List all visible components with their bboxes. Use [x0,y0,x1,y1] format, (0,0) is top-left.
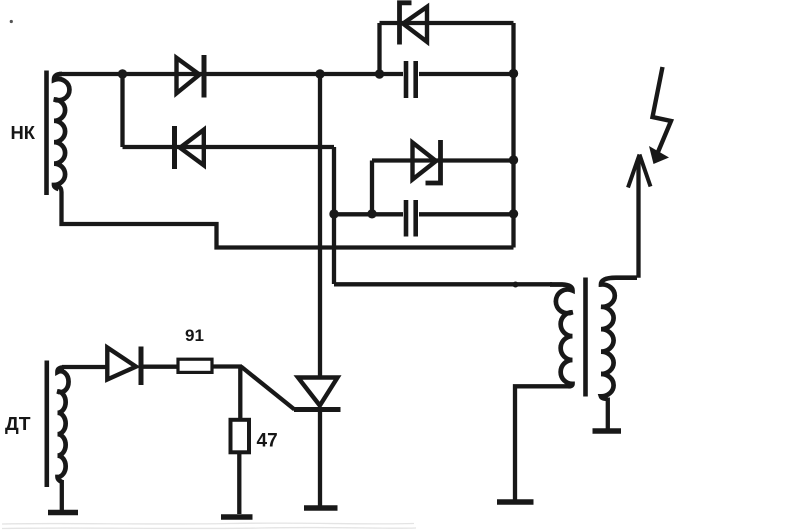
diode VD1 (points right, top rail) [177,55,205,98]
ground (secondary) [593,428,622,434]
svg-text:ДТ: ДТ [5,413,31,434]
wire: resistor R2 to ground [237,452,241,514]
wire: top rail left (coil to C1) [59,72,403,76]
ground (resistor R2) [221,514,253,520]
wire: secondary top riser to spark gap [636,158,640,278]
diode VD4 (points right, middle) [413,140,441,183]
thyristor VS1 [294,378,341,410]
wire: primary bottom to ground [515,386,569,500]
resistor R2 47 [231,420,250,453]
junction node at x122 top rail [118,69,127,78]
coil НК (generator charging coil) [47,71,70,196]
spark gap upper electrode (lightning arrow) [649,67,671,164]
wire: cap2 rail right [419,212,514,216]
wire: diode VD4 rail y160 [372,158,514,162]
ground (coil ДТ) [48,510,78,516]
thyristor cathode wire [318,410,322,506]
diode VD3 (points left, top bypass) [400,3,428,45]
junction node right column top [509,69,518,78]
junction node right column lower [509,209,518,218]
junction blob on y284 rail [513,282,519,288]
svg-text:91: 91 [185,326,204,345]
svg-text:НК: НК [11,122,36,143]
speck artifact top left [10,20,13,23]
junction node at x320 top rail [315,69,324,78]
transformer T1 primary winding [550,285,573,387]
junction node x334 cap rail [329,209,338,218]
svg-text:47: 47 [257,431,278,452]
wire: cap2 rail left [334,212,403,216]
transformer T1 secondary winding [601,278,637,399]
wire: resistor R1 to corner [212,364,242,368]
ground (primary) [497,499,534,505]
wire: riser x122 down to second rail [120,74,124,147]
wire: top bypass rail y23 [380,21,514,25]
wire: gate diagonal to thyristor [241,367,295,410]
wire: second rail y147 [123,145,335,149]
wire: secondary bottom stub [606,398,610,430]
junction node right column middle [509,155,518,164]
wire: rail y284 to transformer primary [334,282,552,286]
coil ДТ (trigger coil) [47,361,69,488]
wire: coil ДТ bottom to ground [60,480,64,510]
junction node x372 cap rail [367,209,376,218]
faint watermark remnant bottom [2,523,416,528]
wire: coil НК bottom return [58,186,514,248]
thyristor VS1 anode wire [318,74,322,377]
wire: corner down to resistor R2 [238,367,242,421]
wire: ДТ rail to diode [62,365,106,369]
resistor R1 91 [178,359,212,372]
wire: riser x380 to top diode rail [377,23,381,74]
ground (thyristor) [304,505,338,511]
capacitor C2 [406,200,416,237]
diode VD5 (points right, trigger) [107,347,141,386]
wire: right column x513 [511,23,515,248]
wire: top rail right (C1 to right column) [419,72,514,76]
diode VD2 (points left, second rail) [175,126,204,169]
wire: riser x372 to diode VD4 rail [370,161,374,215]
transformer T1 core [583,278,588,397]
spark gap lower electrode (up arrow) [628,155,651,188]
wire: diode to resistor R1 [141,365,178,369]
wire: drop x334 from second rail to cap rail and down [332,147,336,284]
capacitor C1 [406,61,416,98]
junction node at x379 top rail [375,69,384,78]
